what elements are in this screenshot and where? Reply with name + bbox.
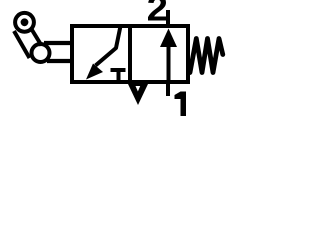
exhaust triangle white notch bbox=[136, 86, 141, 92]
roller (wheel) of actuator bbox=[15, 13, 34, 32]
port 2 stub bbox=[166, 10, 170, 26]
valve body outer rectangle bbox=[72, 26, 188, 82]
T stem bbox=[117, 72, 121, 80]
arrow shaft (diagonal) bbox=[96, 26, 121, 66]
divider between position squares bbox=[128, 26, 132, 82]
valve body outline (two position squares) bbox=[72, 26, 188, 82]
port 2 label bbox=[148, 0, 166, 20]
arrowhead of up arrow bbox=[160, 29, 177, 48]
right square: flow path 1->2 (vertical up arrow) bbox=[167, 45, 171, 80]
arrow shaft vertical bbox=[167, 45, 171, 80]
lever pivot circle bbox=[32, 44, 50, 62]
lever arm right edge line bbox=[31, 28, 42, 46]
roller axle dot bbox=[21, 18, 29, 26]
push rod upper line bbox=[44, 41, 72, 45]
left square: flow path 2->3 (diagonal arrow) bbox=[96, 26, 121, 66]
push rod lower line bbox=[47, 59, 72, 63]
T crossbar bbox=[111, 68, 126, 72]
port 1 label bbox=[175, 92, 187, 117]
return spring (zigzag) bbox=[190, 39, 223, 73]
arrowhead of diagonal arrow bbox=[86, 64, 103, 80]
exhaust port 3 triangle bbox=[128, 84, 148, 105]
port 1 stub bbox=[166, 82, 170, 96]
blocked port symbol (T) in left square bbox=[111, 70, 126, 80]
lever arm left edge line bbox=[14, 31, 30, 58]
